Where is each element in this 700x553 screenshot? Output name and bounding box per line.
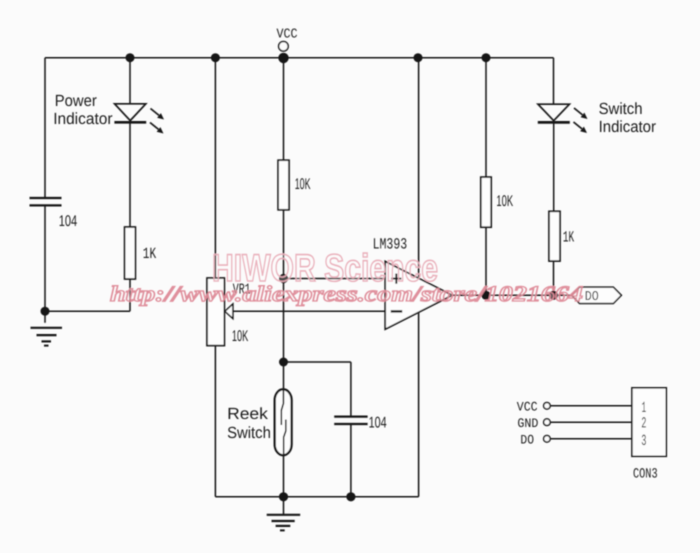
svg-text:Indicator: Indicator xyxy=(599,118,657,136)
connector CON3 pin circle DO xyxy=(544,436,551,443)
reed switch S1 contacts xyxy=(281,390,286,455)
wire: D2 cathode to R4 xyxy=(553,123,555,212)
junction: top rail / D1 branch xyxy=(126,53,135,62)
svg-text:1K: 1K xyxy=(143,245,157,263)
wire: VCC top rail xyxy=(45,57,554,59)
svg-text:VCC: VCC xyxy=(517,400,538,415)
svg-text:Reek: Reek xyxy=(227,405,269,423)
wire: left node horizontal (to R1 bottom) xyxy=(45,310,130,312)
connector CON3 pin circle VCC xyxy=(544,403,551,410)
LED D1 cathode bar xyxy=(114,121,146,124)
power terminal VCC (circle) xyxy=(279,42,289,52)
svg-text:104: 104 xyxy=(369,414,387,431)
svg-text:2: 2 xyxy=(641,415,646,433)
svg-text:VCC: VCC xyxy=(277,28,298,43)
potentiometer VR1 body xyxy=(207,278,224,346)
junction: reed/C2 node xyxy=(279,358,288,367)
svg-text:GND: GND xyxy=(517,416,538,431)
LED D2 Switch Indicator (diode triangle) xyxy=(538,104,569,121)
junction: left rail / R1 bottom xyxy=(41,307,50,316)
svg-text:Switch: Switch xyxy=(599,100,643,118)
svg-text:DO: DO xyxy=(520,432,534,447)
svg-text:10K: 10K xyxy=(496,193,513,210)
capacitor C1 104 (left filter cap plates) xyxy=(30,198,62,205)
svg-text:1K: 1K xyxy=(563,229,575,247)
svg-text:CON3: CON3 xyxy=(633,467,658,483)
wire: mid rail VCC to R2 xyxy=(283,58,285,161)
junction: top rail / R3 xyxy=(482,53,491,62)
LED D2 cathode bar xyxy=(538,121,570,124)
wire: VR1 rail upper xyxy=(214,58,216,278)
svg-text:Indicator: Indicator xyxy=(53,110,113,128)
wire: R3 bottom to output node xyxy=(485,227,487,295)
svg-text:3: 3 xyxy=(641,432,646,450)
wiper arrow of VR1 xyxy=(225,304,233,319)
wire: C2 bottom lead xyxy=(350,424,352,497)
svg-text:DO: DO xyxy=(585,290,599,305)
junction: bottom rail / reed xyxy=(279,492,288,501)
wire: D1 cathode to R1 xyxy=(129,122,131,227)
svg-text:10K: 10K xyxy=(295,176,311,193)
reed switch S1 body (capsule) xyxy=(275,389,292,455)
op-amp minus input mark xyxy=(391,310,402,312)
junction: output / R4 xyxy=(549,291,558,300)
resistor R1 1K xyxy=(125,227,136,279)
resistor R4 1K xyxy=(549,211,560,261)
junction: output / R3 xyxy=(481,291,490,300)
junction: non-inverting input node xyxy=(279,274,288,283)
LED D1 light arrow 1 xyxy=(151,109,165,120)
ground (bottom center) xyxy=(267,497,301,531)
capacitor C2 104 (plates) xyxy=(334,417,367,424)
wire: op-amp power rail (passes behind U1) xyxy=(418,58,420,497)
wire: CON3 pin 1 lead xyxy=(550,405,632,407)
wire: bottom ground rail xyxy=(215,496,418,498)
svg-text:10K: 10K xyxy=(232,328,249,345)
ground (left) xyxy=(31,328,63,346)
wire: right rail corner to LED D2 xyxy=(553,58,555,104)
wire: R3 rail from top xyxy=(485,58,487,177)
wire: reed switch bottom lead xyxy=(283,455,285,497)
resistor R3 10K xyxy=(481,177,491,227)
svg-text:Switch: Switch xyxy=(227,424,271,442)
connector CON3 pin circle GND xyxy=(544,419,551,426)
wire: mid rail R2 to reed switch xyxy=(283,210,285,390)
label Power Indicator xyxy=(53,92,113,128)
node DO output flag xyxy=(572,287,622,303)
resistor R2 10K xyxy=(278,160,289,210)
wire: CON3 pin 2 lead xyxy=(550,421,632,423)
svg-text:http://www.aliexpress.com/stor: http://www.aliexpress.com/store/1021664 xyxy=(110,281,583,306)
LED D1 light arrow 2 xyxy=(150,123,164,134)
wire: R4 bottom to output node xyxy=(553,261,555,295)
junction: bottom rail / C2 xyxy=(346,492,355,501)
wire: R1 bottom to left node xyxy=(129,279,131,311)
wire: C2 top lead xyxy=(350,362,352,416)
op-amp plus input mark xyxy=(391,274,401,284)
wire: VR1 wiper to op-amp inverting input xyxy=(233,310,386,312)
wire: to op-amp non-inverting input xyxy=(284,278,386,280)
wire: node to C2 branch xyxy=(284,361,351,363)
op-amp U1 LM393 (triangle) xyxy=(385,261,452,329)
svg-text:104: 104 xyxy=(59,213,78,230)
label Reek Switch xyxy=(227,405,271,442)
wire: op-amp output xyxy=(452,294,571,296)
LED D2 light arrow 1 xyxy=(574,108,588,119)
wire: left rail upper segment xyxy=(44,58,46,198)
wire: left rail lower segment xyxy=(44,206,46,323)
junction: top rail / VR1 rail xyxy=(211,53,220,62)
LED D2 light arrow 2 xyxy=(574,122,588,133)
junction: VCC node xyxy=(278,53,288,63)
junction: top rail / power rail xyxy=(414,53,423,62)
LED D1 Power Indicator (diode triangle) xyxy=(115,104,146,121)
connector CON3 body xyxy=(632,388,666,457)
wire: CON3 pin 3 lead xyxy=(550,438,632,440)
label Switch Indicator xyxy=(599,100,657,136)
wire: VR1 bottom to bottom rail xyxy=(214,346,216,497)
wire: LED D1 anode branch xyxy=(129,58,131,104)
svg-text:Power: Power xyxy=(55,92,98,110)
